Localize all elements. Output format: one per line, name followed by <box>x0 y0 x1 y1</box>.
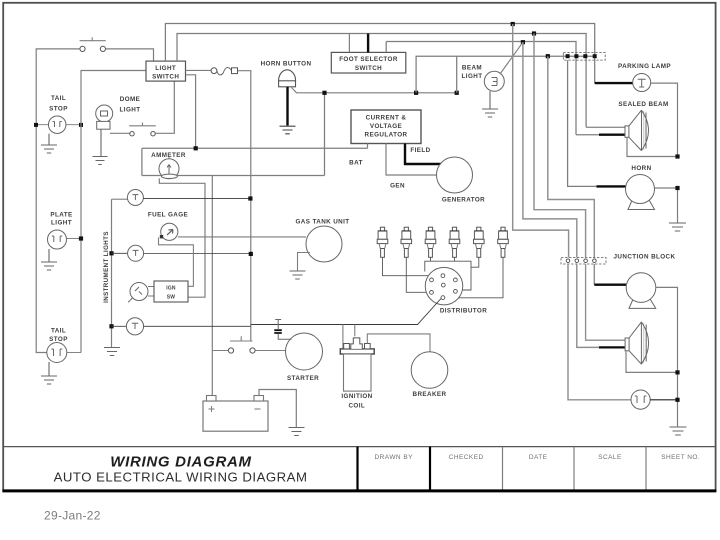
spark plug 3 <box>428 227 432 231</box>
wire: battery negative to ground <box>259 390 296 428</box>
breaker: BREAKER circle <box>411 352 448 389</box>
wire: gray riser W2 to selector <box>348 34 350 53</box>
ground: instrument lights bus <box>104 348 120 356</box>
wire: ammeter top / BAT wire <box>142 147 368 149</box>
svg-text:HORN: HORN <box>631 165 651 172</box>
wire A: parking lamp feed (thick) <box>595 82 633 84</box>
wire: ammeter box corner down to battery <box>211 176 213 396</box>
wire C: W3 drop to sealed beam lower feed <box>576 134 600 136</box>
svg-text:JUNCTION BLOCK: JUNCTION BLOCK <box>614 253 676 260</box>
svg-text:IGNITION: IGNITION <box>341 393 372 400</box>
ground: under horn button <box>280 126 296 134</box>
wire: sealed beam return to right bus <box>627 137 678 156</box>
svg-text:LIGHT: LIGHT <box>155 65 176 72</box>
box: IGN SW <box>148 287 154 297</box>
svg-text:PLATE: PLATE <box>50 211 72 218</box>
wire: fuel gage bottom to ignition switch riser <box>159 238 194 287</box>
node: dot at x416 <box>414 91 418 95</box>
svg-text:STARTER: STARTER <box>287 375 319 382</box>
svg-text:AUTO ELECTRICAL WIRING DIAGRAM: AUTO ELECTRICAL WIRING DIAGRAM <box>54 470 308 485</box>
wire: GEN to generator <box>386 144 437 176</box>
svg-text:WIRING DIAGRAM: WIRING DIAGRAM <box>110 454 251 471</box>
title block top line <box>3 446 715 448</box>
wire jb3: to sealed beam lower upper feed <box>586 264 626 340</box>
ground: under beam light <box>482 91 498 117</box>
wire D: connector to horn 1 <box>568 60 598 186</box>
spark plugs p1-p6 <box>377 227 508 257</box>
lamp: TAIL STOP upper <box>48 116 65 134</box>
wire E: from W4 dot <box>548 56 595 257</box>
wire jb4: to horn lower (thick) <box>593 264 595 285</box>
box: FOOT SELECTOR SWITCH <box>331 52 406 73</box>
lamp: bottom right tail lamp <box>631 390 650 409</box>
wire: light switch left feed bus down page <box>81 71 146 353</box>
starter push switch <box>230 336 253 341</box>
ground: battery <box>289 428 305 436</box>
box: CURRENT & VOLTAGE REGULATOR <box>351 110 421 144</box>
headlamp: SEALED BEAM lower <box>625 322 649 364</box>
horn: lower horn <box>629 297 656 308</box>
svg-text:TAIL: TAIL <box>51 95 66 102</box>
svg-text:HORN BUTTON: HORN BUTTON <box>261 61 312 68</box>
wire B: W2 drop to sealed beam upper feed <box>586 126 625 128</box>
spark plug 4 <box>452 227 456 231</box>
connector: top junction row (dashed) <box>563 53 605 61</box>
spark plug 1 <box>380 227 384 231</box>
wire: horn right to ground <box>655 188 678 223</box>
svg-text:FOOT SELECTOR: FOOT SELECTOR <box>339 56 398 63</box>
wire: plug5 lead jog <box>471 257 479 267</box>
node: dot lamp1 wire at fuse bus <box>248 196 252 200</box>
node: connector dots <box>566 54 570 58</box>
box: LIGHT SWITCH <box>146 61 186 81</box>
svg-text:STOP: STOP <box>49 106 68 113</box>
lamp: instrument light 2 <box>109 251 113 255</box>
battery <box>203 401 268 431</box>
fuse body <box>211 68 217 74</box>
capacitor: condenser on starter <box>275 320 281 330</box>
lamp: instrument light 3 <box>109 324 113 328</box>
svg-text:LIGHT: LIGHT <box>462 73 483 80</box>
svg-text:FUEL GAGE: FUEL GAGE <box>148 211 188 218</box>
dome light switch <box>129 123 156 126</box>
wire: top-left pull switch tick and plate <box>80 37 106 41</box>
wire from pull switch left to left bus <box>36 49 80 125</box>
svg-text:DOME: DOME <box>120 96 141 103</box>
svg-text:SWITCH: SWITCH <box>355 65 382 72</box>
wire: ammeter bottom loop to ignition switch <box>159 178 205 297</box>
svg-text:VOLTAGE: VOLTAGE <box>370 123 402 130</box>
svg-text:REGULATOR: REGULATOR <box>365 132 408 139</box>
svg-text:DISTRIBUTOR: DISTRIBUTOR <box>440 308 487 315</box>
wire: plug3 lead to top rail <box>430 257 432 261</box>
motor: GENERATOR <box>437 157 473 193</box>
distributor cap <box>425 267 463 305</box>
ground: right bus bottom <box>670 427 687 435</box>
ground: under dome light <box>93 129 108 164</box>
meter: ammeter dial <box>159 157 179 179</box>
wire: primary feed from fuse bus to distributor <box>251 299 441 325</box>
wire: plug4 lead to top rail <box>454 257 456 261</box>
svg-text:LIGHT: LIGHT <box>120 107 141 114</box>
wire: tail lamp to buses <box>38 124 81 126</box>
dome light base <box>97 121 110 129</box>
wire W2: second riser across top <box>177 34 586 128</box>
wire: instrument lights bus <box>111 199 113 347</box>
node: dot on ammeter wire <box>194 146 198 150</box>
wire: distributor top rail <box>425 261 471 290</box>
ground: under plate light <box>41 249 57 270</box>
svg-text:CURRENT &: CURRENT & <box>366 115 407 122</box>
svg-text:SHEET NO.: SHEET NO. <box>661 454 700 461</box>
wire W3: selector to beam/right side <box>386 42 576 135</box>
svg-text:BAT: BAT <box>349 159 363 166</box>
svg-text:SW: SW <box>167 295 176 301</box>
svg-text:COIL: COIL <box>348 403 365 410</box>
svg-text:IGN: IGN <box>166 285 176 291</box>
spark plug 2 <box>404 227 408 231</box>
wire pull switch right to light switch top <box>106 49 154 61</box>
wire: battery bus to starter switch <box>212 350 228 352</box>
ground: gas tank <box>290 271 306 279</box>
ground: horn upper <box>669 223 686 231</box>
wire: gas tank to ground <box>298 253 311 271</box>
box: AMMETER (open right) <box>142 93 325 176</box>
svg-text:FIELD: FIELD <box>410 147 430 154</box>
wire: bottom lamp right (dark) <box>650 399 677 401</box>
wire: lamp1 to fuse bus <box>143 197 250 199</box>
svg-text:DATE: DATE <box>529 454 548 461</box>
distributor terminals <box>430 274 458 300</box>
wire jb2: to sealed beam lower low feed <box>577 264 600 347</box>
wire: horn button thick drop to ground <box>286 87 288 126</box>
wire: lamp3 to distributor feed corner <box>144 325 251 327</box>
svg-text:29-Jan-22: 29-Jan-22 <box>44 509 101 523</box>
wire: dome base to dome switch <box>110 132 130 134</box>
ground: under lower tail lamp <box>41 362 57 384</box>
lamp: instrument light 1 <box>112 198 128 200</box>
node: dot at x324 <box>322 91 326 95</box>
wire W1: light switch top riser to far right (parking lamp line) <box>165 24 594 84</box>
wire: BAT terminal drop <box>367 144 369 149</box>
wire: diagonal from beam light to W3 dot <box>500 42 523 74</box>
svg-text:SCALE: SCALE <box>598 454 622 461</box>
spark plug 6 <box>501 227 505 231</box>
wire: light switch right stub to ammeter wire <box>186 75 196 148</box>
node: dot on W1 at x512 <box>511 22 515 26</box>
lamp: DOME LIGHT bulb <box>96 105 113 122</box>
svg-text:GENERATOR: GENERATOR <box>442 197 485 204</box>
wire W4: selector loop to junction row <box>416 56 596 93</box>
svg-text:INSTRUMENT LIGHTS: INSTRUMENT LIGHTS <box>103 231 110 303</box>
svg-text:STOP: STOP <box>49 336 68 343</box>
svg-text:SEALED BEAM: SEALED BEAM <box>618 101 668 108</box>
wire: lower sealed beam return <box>626 351 678 373</box>
node: dot on W4 at x547 <box>546 54 550 58</box>
wire: coil right terminal to breaker <box>367 334 430 352</box>
svg-text:BREAKER: BREAKER <box>413 391 447 398</box>
bottom thick border <box>2 489 716 492</box>
svg-text:DRAWN BY: DRAWN BY <box>375 454 414 461</box>
coil: IGNITION COIL body <box>340 349 374 354</box>
wire: fuse output down the page <box>238 71 251 341</box>
node: dot on W2 at x534 <box>532 31 536 35</box>
wire F: from W2 dot <box>534 34 586 258</box>
spark plug 5 <box>477 227 481 231</box>
svg-text:PARKING LAMP: PARKING LAMP <box>618 63 671 70</box>
wire H: from W1 dot <box>513 24 569 258</box>
wire: coil tower riser to primary wire <box>343 325 355 349</box>
wire: lower horn right to right bus <box>656 287 678 426</box>
svg-text:BEAM: BEAM <box>462 65 482 72</box>
wire: black riser W2 to selector <box>367 34 369 53</box>
svg-text:LIGHT: LIGHT <box>51 219 72 226</box>
wire: left bus down to lower tail lamp <box>36 125 47 353</box>
wire: plug1 lead to distributor top terminal <box>383 257 442 275</box>
svg-text:SWITCH: SWITCH <box>152 74 179 81</box>
node: dot right bus at sealed beam <box>675 154 679 158</box>
motor: STARTER <box>286 333 323 370</box>
fuse: wire from light switch right <box>186 69 212 71</box>
ground: under upper tail lamp <box>41 134 57 153</box>
svg-text:GAS TANK UNIT: GAS TANK UNIT <box>295 218 349 225</box>
wire: starter switch to starter <box>255 350 285 352</box>
wire: dome switch right up to light switch bottom <box>155 81 174 133</box>
title block dividers <box>356 447 358 491</box>
node: junction dot right of tail lamp <box>79 123 83 127</box>
wire: plug2 lead to lower-left terminal <box>406 257 429 292</box>
node: dot at x456 <box>455 91 459 95</box>
headlight pull switch contacts <box>80 46 85 51</box>
node: dot on W3 at x522 <box>521 40 525 44</box>
svg-text:CHECKED: CHECKED <box>449 454 484 461</box>
wire: parking lamp return <box>651 83 678 157</box>
wire: FIELD thick black to generator <box>405 144 441 165</box>
wire: horn button branch across to selector loop <box>292 88 457 93</box>
wire: plug6 lead wrapping right <box>458 257 503 298</box>
switch: ignition key symbol <box>128 283 148 303</box>
wire jb1: to bottom lamp <box>568 264 631 400</box>
wire G: from W3 dot <box>523 42 577 257</box>
wire: fuel gage to gas tank unit <box>178 236 306 238</box>
node: junction dot left of tail/stop lamp <box>34 123 38 127</box>
svg-text:GEN: GEN <box>390 182 405 189</box>
svg-text:TAIL: TAIL <box>51 327 66 334</box>
